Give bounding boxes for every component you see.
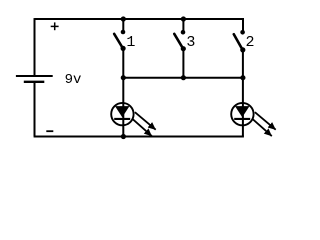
battery B1 short plate (-) [24, 81, 45, 83]
wire left branch lower (battery -) [34, 82, 36, 137]
wire LED D2 branch [242, 78, 244, 137]
switch S2 contacts and lever [234, 30, 246, 53]
node junction mid S2 [240, 75, 245, 80]
wire switch S3 bottom lead [182, 49, 184, 78]
LED D1 [111, 103, 133, 125]
node junction mid S3 [181, 75, 186, 80]
node junction top S1 [121, 16, 126, 21]
battery B1 long plate (+) [16, 75, 53, 77]
battery plus mark [51, 22, 59, 30]
wire switch S2 top lead (right corner) [242, 18, 244, 32]
node junction mid S1 [121, 75, 126, 80]
wire switch S1 bottom lead [122, 49, 124, 78]
node junction bottom D1 [121, 134, 126, 139]
wire switch S3 top lead [182, 19, 184, 32]
wire top bus [35, 18, 245, 20]
svg-text:2: 2 [246, 34, 255, 51]
wire left branch upper (battery +) [34, 18, 36, 76]
switch S3 contacts and lever [174, 30, 186, 51]
battery minus mark [46, 130, 53, 132]
svg-text:3: 3 [186, 34, 195, 51]
node junction top S3 [181, 16, 186, 21]
wire middle bus [123, 77, 243, 79]
wire bottom bus [34, 136, 244, 138]
svg-text:1: 1 [126, 34, 135, 51]
wire switch S2 bottom lead [242, 50, 244, 78]
LED D2 light arrows [252, 112, 276, 136]
wire switch S1 top lead [122, 19, 124, 32]
switch S1 contacts and lever [114, 30, 126, 51]
svg-text:9v: 9v [65, 72, 82, 88]
LED D1 light arrows [132, 112, 156, 136]
wire LED D1 branch [122, 78, 124, 137]
LED D2 [231, 103, 253, 125]
